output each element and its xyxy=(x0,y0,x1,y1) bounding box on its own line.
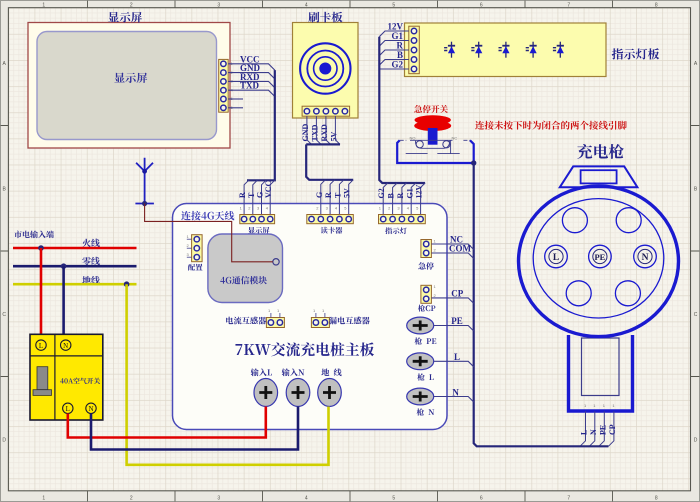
svg-text:6: 6 xyxy=(480,3,483,9)
svg-text:R: R xyxy=(324,192,333,198)
svg-text:COM: COM xyxy=(449,243,472,253)
board connector 读卡器 xyxy=(307,215,354,224)
svg-text:VCC: VCC xyxy=(264,180,273,198)
svg-text:3: 3 xyxy=(217,3,220,9)
display title text xyxy=(108,12,142,23)
svg-text:TXD: TXD xyxy=(240,81,260,91)
svg-text:PE: PE xyxy=(594,252,605,262)
ground wire down and around to board xyxy=(127,284,329,465)
gun CP connector 枪CP xyxy=(421,285,432,303)
svg-text:G1: G1 xyxy=(405,188,414,198)
input terminals 输入L 输入N 地线 xyxy=(251,368,272,376)
wires VCC GND RXD TXD from display xyxy=(228,64,275,70)
main board title xyxy=(235,342,374,356)
svg-text:R: R xyxy=(396,193,405,199)
svg-text:G2: G2 xyxy=(391,60,403,70)
ground wire (yellow) xyxy=(13,283,137,286)
gun face outer circle xyxy=(519,186,679,337)
svg-text:N: N xyxy=(63,342,68,350)
e-stop stem xyxy=(428,128,438,145)
card reader board 刷卡板 xyxy=(293,23,359,119)
svg-text:G2: G2 xyxy=(377,188,386,198)
svg-text:8: 8 xyxy=(655,496,658,502)
neutral wire (navy) xyxy=(13,265,137,268)
e-stop outer wire loop xyxy=(397,140,474,163)
svg-text:PE: PE xyxy=(451,316,463,326)
display inner label xyxy=(114,73,147,83)
svg-text:C: C xyxy=(694,312,698,318)
gun terminals 枪PE 枪L 枪N xyxy=(407,317,434,334)
indicator signal bus xyxy=(379,37,425,183)
svg-text:G: G xyxy=(256,192,265,198)
svg-text:TXD: TXD xyxy=(310,124,319,141)
wires 12V G1 R B G2 to LED board xyxy=(379,31,408,37)
gun handle xyxy=(569,335,633,411)
breaker lever xyxy=(37,367,48,390)
LED row xyxy=(444,42,455,58)
e-stop red cap xyxy=(415,115,451,125)
svg-text:B: B xyxy=(397,50,403,60)
svg-text:6: 6 xyxy=(480,496,483,502)
svg-text:7: 7 xyxy=(567,3,570,9)
gun pin holes bottom xyxy=(566,281,591,306)
svg-text:3: 3 xyxy=(217,496,220,502)
svg-text:NO: NO xyxy=(410,135,416,140)
svg-text:L: L xyxy=(39,342,43,350)
svg-text:D: D xyxy=(694,437,698,443)
leakage CT connector 漏电互感器 xyxy=(311,318,329,328)
display connector J-DISP (6 pin) xyxy=(219,59,229,112)
gun top latch trapezoid xyxy=(560,166,638,187)
svg-text:12V: 12V xyxy=(415,185,424,199)
e-stop contacts xyxy=(410,139,453,141)
breaker output wires L N to board xyxy=(68,407,266,438)
svg-text:NC: NC xyxy=(452,135,458,140)
svg-text:5V: 5V xyxy=(329,132,338,142)
LED board connector (5 pin) xyxy=(409,26,420,73)
CT connector 电流互感器 xyxy=(266,318,284,328)
svg-text:R: R xyxy=(397,41,404,51)
config connector 配置 xyxy=(192,235,203,262)
display signal bus down to mainboard xyxy=(247,70,275,180)
unused display pins 5,6 stubs xyxy=(228,98,243,100)
svg-text:8: 8 xyxy=(655,3,658,9)
svg-text:L: L xyxy=(580,430,589,435)
svg-text:L: L xyxy=(553,253,559,263)
indicator LED board 指示灯板 xyxy=(405,23,607,77)
svg-text:4: 4 xyxy=(305,3,308,9)
svg-text:5: 5 xyxy=(392,496,395,502)
breaker 40A空气开关 xyxy=(30,334,103,420)
emergency stop switch 急停开关 xyxy=(414,105,448,113)
bus from mainboard right side down to gun xyxy=(474,163,609,446)
svg-text:GND: GND xyxy=(301,124,310,142)
svg-text:C: C xyxy=(2,312,6,318)
svg-text:D: D xyxy=(2,437,6,443)
svg-text:B: B xyxy=(387,193,396,199)
svg-text:12V: 12V xyxy=(388,22,404,32)
mains input labels xyxy=(14,231,54,239)
junction dots xyxy=(38,245,44,251)
card board connector (5 pin) xyxy=(302,106,350,116)
svg-text:L: L xyxy=(66,405,70,413)
svg-text:1: 1 xyxy=(42,3,45,9)
board connector 显示屏 xyxy=(240,215,275,224)
gun cable wires L N PE CP xyxy=(580,411,586,446)
live wire (red) xyxy=(13,247,137,250)
svg-text:N: N xyxy=(589,429,598,435)
svg-text:G1: G1 xyxy=(391,31,403,41)
RFID coil xyxy=(300,43,350,93)
display unit 显示屏 board xyxy=(28,23,230,149)
red note text xyxy=(475,121,627,130)
4G module xyxy=(208,234,283,303)
antenna xyxy=(135,158,154,204)
drops to breaker xyxy=(40,248,43,340)
svg-text:5: 5 xyxy=(392,3,395,9)
svg-text:N: N xyxy=(642,253,649,263)
svg-text:4: 4 xyxy=(305,496,308,502)
svg-text:G: G xyxy=(315,192,324,198)
svg-text:7: 7 xyxy=(567,496,570,502)
antenna wire to 4G module xyxy=(145,204,273,262)
svg-text:2: 2 xyxy=(130,3,133,9)
board connector 指示灯 xyxy=(379,215,426,224)
svg-text:1: 1 xyxy=(42,496,45,502)
svg-text:RXD: RXD xyxy=(320,124,329,142)
e-stop connector 急停 NC COM xyxy=(421,240,432,258)
svg-text:T: T xyxy=(247,192,256,198)
card reader signal bus xyxy=(307,116,312,144)
net label 连接4G天线 xyxy=(181,211,234,220)
gun pin holes top xyxy=(562,208,587,233)
svg-text:N: N xyxy=(452,387,459,397)
gun L PE N contacts xyxy=(545,245,568,268)
charging gun 充电枪 xyxy=(577,144,624,159)
svg-text:5V: 5V xyxy=(343,188,352,198)
svg-text:CP: CP xyxy=(451,289,463,299)
svg-text:L: L xyxy=(454,352,460,362)
svg-text:T: T xyxy=(333,192,342,198)
svg-text:CP: CP xyxy=(608,424,617,435)
svg-text:2: 2 xyxy=(130,496,133,502)
svg-text:PE: PE xyxy=(598,425,607,435)
svg-text:N: N xyxy=(88,405,93,413)
main board 7KW交流充电桩主板 outline xyxy=(173,204,448,430)
svg-text:R: R xyxy=(238,192,247,198)
